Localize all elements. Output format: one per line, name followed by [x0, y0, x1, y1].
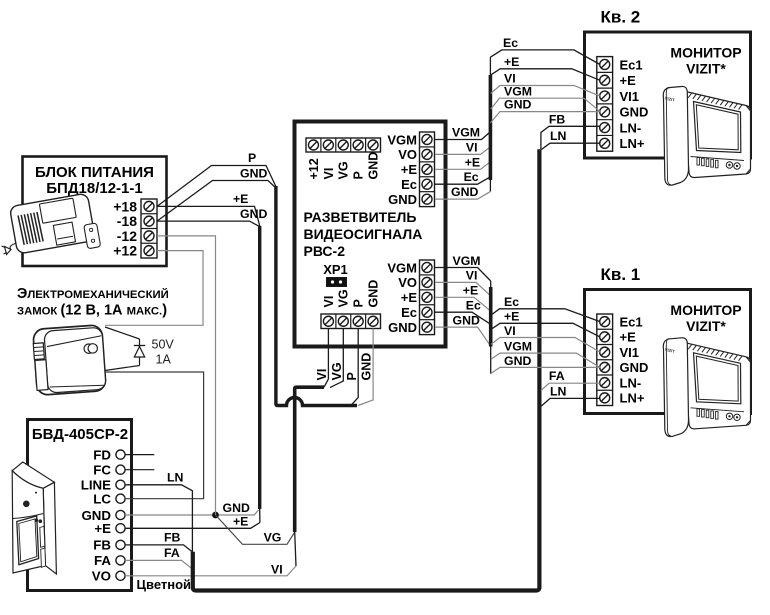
svg-text:GND: GND	[388, 320, 417, 335]
svg-text:+E: +E	[401, 162, 418, 177]
svg-text:VGM: VGM	[504, 84, 532, 98]
svg-text:VI1: VI1	[620, 345, 640, 360]
svg-text:VGM: VGM	[387, 260, 417, 275]
svg-text:+E: +E	[620, 330, 637, 345]
svg-text:VI: VI	[504, 324, 516, 338]
svg-text:P: P	[352, 171, 366, 179]
svg-text:+E: +E	[465, 155, 480, 169]
svg-text:GND: GND	[453, 314, 480, 328]
svg-text:Ec1: Ec1	[620, 314, 643, 329]
svg-text:VG: VG	[337, 161, 351, 179]
svg-text:LN+: LN+	[620, 391, 645, 406]
svg-text:LC: LC	[93, 492, 111, 507]
svg-text:VIZIT*: VIZIT*	[686, 318, 726, 334]
svg-text:Кв. 1: Кв. 1	[601, 265, 641, 284]
svg-text:+E: +E	[463, 284, 478, 298]
svg-text:БВД-405СР-2: БВД-405СР-2	[32, 426, 128, 443]
svg-text:БЛОК ПИТАНИЯ: БЛОК ПИТАНИЯ	[35, 164, 154, 181]
svg-text:VO: VO	[398, 147, 417, 162]
svg-text:+E: +E	[620, 73, 637, 88]
svg-text:+E: +E	[504, 310, 519, 324]
svg-text:50V: 50V	[152, 338, 175, 352]
svg-text:Ec: Ec	[464, 170, 479, 184]
svg-text:LN: LN	[550, 385, 567, 399]
svg-text:1A: 1A	[156, 353, 172, 367]
svg-text:VGM: VGM	[387, 132, 417, 147]
svg-text:-12: -12	[117, 228, 137, 244]
svg-text:P: P	[352, 299, 366, 307]
svg-text:FB: FB	[93, 538, 111, 553]
svg-text:Ec: Ec	[401, 305, 417, 320]
svg-text:БПД18/12-1-1: БПД18/12-1-1	[46, 180, 142, 197]
svg-text:GND: GND	[620, 105, 649, 120]
svg-text:Ec: Ec	[466, 298, 481, 312]
svg-text:Кв. 2: Кв. 2	[601, 8, 641, 27]
svg-text:VI: VI	[466, 269, 478, 283]
svg-text:+12: +12	[113, 243, 137, 259]
svg-text:FC: FC	[93, 463, 111, 478]
svg-text:+E: +E	[94, 521, 111, 536]
svg-text:P: P	[345, 372, 359, 380]
svg-text:ВИДЕОСИГНАЛА: ВИДЕОСИГНАЛА	[304, 226, 423, 242]
svg-text:LN-: LN-	[620, 375, 642, 390]
svg-text:GND: GND	[451, 185, 478, 199]
svg-text:РВС-2: РВС-2	[304, 243, 346, 259]
svg-text:GND: GND	[504, 354, 531, 368]
svg-text:РАЗВЕТВИТЕЛЬ: РАЗВЕТВИТЕЛЬ	[304, 209, 417, 225]
svg-text:GND: GND	[360, 353, 374, 381]
svg-text:VO: VO	[398, 275, 417, 290]
svg-text:FA: FA	[94, 553, 111, 568]
svg-text:VG: VG	[337, 289, 351, 307]
svg-text:VGM: VGM	[452, 125, 480, 139]
svg-text:+E: +E	[401, 290, 418, 305]
svg-text:VGM: VGM	[453, 254, 481, 268]
svg-text:FA: FA	[549, 369, 565, 383]
svg-text:LN: LN	[550, 129, 567, 143]
svg-text:GND: GND	[240, 167, 267, 181]
svg-text:GND: GND	[366, 152, 380, 180]
svg-text:GND: GND	[223, 501, 250, 515]
svg-text:+12: +12	[307, 158, 321, 179]
svg-text:-18: -18	[117, 213, 137, 229]
svg-text:VI: VI	[322, 296, 336, 308]
svg-text:ЭЛЕКТРОМЕХАНИЧЕСКИЙ: ЭЛЕКТРОМЕХАНИЧЕСКИЙ	[17, 286, 169, 302]
svg-text:LINE: LINE	[81, 478, 111, 493]
svg-text:VIZIT*: VIZIT*	[686, 61, 726, 77]
svg-text:GND: GND	[620, 360, 649, 375]
svg-text:GND: GND	[366, 280, 380, 308]
svg-text:Цветной: Цветной	[137, 577, 192, 592]
svg-text:FA: FA	[164, 546, 180, 560]
svg-text:МОНИТОР: МОНИТОР	[670, 45, 741, 61]
svg-text:Ec1: Ec1	[620, 57, 643, 72]
svg-text:+E: +E	[233, 515, 248, 529]
svg-text:+E: +E	[233, 192, 248, 206]
svg-text:VG: VG	[264, 531, 282, 545]
svg-text:ЗАМОК (12 В, 1А МАКС.): ЗАМОК (12 В, 1А МАКС.)	[17, 303, 167, 319]
svg-text:P: P	[248, 151, 256, 165]
svg-text:+E: +E	[504, 55, 519, 69]
svg-text:FB: FB	[549, 113, 566, 127]
svg-text:VI1: VI1	[620, 89, 640, 104]
svg-text:VI: VI	[322, 168, 336, 180]
svg-text:Ec: Ec	[503, 36, 518, 50]
svg-text:LN-: LN-	[620, 120, 642, 135]
svg-text:VI: VI	[315, 369, 329, 381]
svg-text:+18: +18	[113, 198, 137, 214]
svg-text:Ec: Ec	[504, 295, 519, 309]
svg-text:VI: VI	[466, 140, 478, 154]
svg-text:GND: GND	[388, 192, 417, 207]
svg-text:VGM: VGM	[504, 340, 532, 354]
svg-text:XP1: XP1	[323, 262, 348, 277]
svg-text:VG: VG	[330, 362, 344, 380]
svg-text:МОНИТОР: МОНИТОР	[670, 302, 741, 318]
svg-text:FB: FB	[164, 531, 181, 545]
svg-text:VI: VI	[271, 563, 283, 577]
svg-text:Ec: Ec	[401, 177, 417, 192]
svg-text:GND: GND	[240, 207, 267, 221]
svg-text:GND: GND	[504, 98, 531, 112]
svg-text:VO: VO	[92, 569, 111, 584]
svg-text:LN: LN	[167, 471, 184, 485]
svg-text:LN+: LN+	[620, 136, 645, 151]
svg-text:FD: FD	[93, 447, 111, 462]
